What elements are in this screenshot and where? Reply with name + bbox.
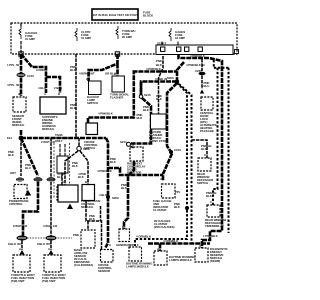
- svg-text:B: B: [85, 180, 87, 184]
- svg-text:GRY: GRY: [10, 171, 16, 175]
- svg-text:10 AMP: 10 AMP: [25, 37, 35, 41]
- terminal at fuse box corner: [235, 50, 239, 54]
- svg-text:BLU: BLU: [204, 84, 210, 88]
- PCM text: [81, 199, 100, 209]
- svg-text:2 WHT 140: 2 WHT 140: [41, 140, 56, 144]
- svg-text:PACKAGE: PACKAGE: [200, 129, 214, 133]
- cruise control switch box: [84, 123, 98, 150]
- svg-text:8 BLK 450: 8 BLK 450: [8, 242, 22, 246]
- svg-text:F: F: [137, 243, 139, 247]
- svg-text:8 BLK 450: 8 BLK 450: [37, 242, 51, 246]
- svg-text:CLUSTER: CLUSTER: [153, 208, 167, 212]
- svg-text:3 ORN: 3 ORN: [36, 68, 45, 72]
- connector C oval small: [16, 178, 24, 182]
- svg-text:S216: S216: [144, 93, 151, 97]
- terminal arrow left: [19, 250, 24, 255]
- rear defogger switch feed: [192, 140, 208, 158]
- svg-text:HOT IN RUN, BULB TEST OR START: HOT IN RUN, BULB TEST OR START: [92, 13, 139, 17]
- node left arm to S216: [141, 82, 177, 95]
- svg-text:MODULE: MODULE: [81, 205, 93, 209]
- svg-text:4 BRN/WHT: 4 BRN/WHT: [79, 72, 95, 76]
- wire pink feed left: [20, 54, 23, 96]
- svg-text:4 ORN/BLK: 4 ORN/BLK: [163, 239, 179, 243]
- svg-text:BLK: BLK: [206, 194, 213, 198]
- wire ACR down to generator: [124, 161, 134, 229]
- svg-text:S206: S206: [167, 76, 174, 80]
- terminal arrow right: [48, 250, 53, 255]
- strip feed jogs right: [179, 54, 223, 248]
- fan wires to PCM: [65, 151, 88, 185]
- connector C210 right: [46, 236, 57, 241]
- svg-text:BLK: BLK: [72, 164, 79, 168]
- svg-text:BLK: BLK: [201, 147, 208, 151]
- svg-text:50: 50: [16, 83, 20, 87]
- svg-text:LAMPS MODULE: LAMPS MODULE: [126, 265, 149, 269]
- svg-text:BLK: BLK: [57, 175, 64, 179]
- svg-text:20 AMP: 20 AMP: [122, 35, 132, 39]
- central door lock box: [200, 97, 217, 133]
- svg-text:S209: S209: [112, 196, 119, 200]
- long vertical wire x108: [106, 138, 109, 248]
- svg-text:S214: S214: [120, 140, 127, 144]
- pin at fuse box exit left: [19, 52, 23, 56]
- svg-text:E14: E14: [7, 136, 12, 140]
- svg-text:BLK: BLK: [143, 108, 150, 112]
- svg-text:4 BLK: 4 BLK: [99, 193, 108, 197]
- svg-text:SWITCH: SWITCH: [87, 101, 98, 105]
- svg-text:(TBI) UNIT: (TBI) UNIT: [11, 279, 25, 283]
- fuse GAUGES left: [19, 26, 37, 41]
- inter-connector dashed link: [27, 237, 72, 239]
- svg-text:ONLY: ONLY: [55, 139, 63, 143]
- svg-text:BLK: BLK: [156, 97, 163, 101]
- svg-text:BLK: BLK: [174, 205, 181, 209]
- svg-text:(DERM): (DERM): [210, 259, 220, 263]
- svg-text:BLK: BLK: [70, 68, 77, 72]
- svg-text:(CONV CTR): (CONV CTR): [149, 139, 166, 143]
- svg-text:LAMPS MODULE: LAMPS MODULE: [169, 258, 192, 262]
- svg-text:4 BLK: 4 BLK: [38, 86, 47, 90]
- svg-text:50: 50: [16, 63, 20, 67]
- sensor module box: [12, 92, 26, 127]
- svg-text:1 PPL: 1 PPL: [7, 63, 15, 67]
- rear window defogger timer box: [205, 205, 226, 228]
- fuse block name label: [143, 11, 154, 18]
- svg-text:MODULE: MODULE: [42, 127, 54, 131]
- turn signal flasher box: [110, 76, 129, 100]
- svg-text:BLK: BLK: [121, 186, 128, 190]
- TBI unit box right: [42, 255, 66, 283]
- node E14 splice: [7, 130, 23, 140]
- central door lock feed: [201, 59, 203, 71]
- wire pnk vertical from fuse: [75, 54, 77, 137]
- svg-text:4 PPL: 4 PPL: [7, 83, 15, 87]
- svg-text:BLOCK: BLOCK: [143, 14, 154, 18]
- splice S211: [169, 148, 181, 154]
- generator box: [116, 225, 135, 247]
- svg-text:B: B: [58, 92, 60, 96]
- svg-text:SWITCH: SWITCH: [84, 146, 95, 150]
- DRL module box left: [154, 251, 196, 265]
- svg-text:2 BLK: 2 BLK: [54, 86, 63, 90]
- svg-text:4 PNK/BLK: 4 PNK/BLK: [190, 54, 206, 58]
- svg-text:10 AMP: 10 AMP: [175, 36, 185, 40]
- svg-text:BLK: BLK: [70, 106, 77, 110]
- fuse block dashed box: [11, 23, 237, 54]
- splice S208: [77, 138, 90, 151]
- PCM box 1: [58, 185, 78, 202]
- wire triple right: [213, 60, 229, 233]
- long vertical wire pair: [135, 83, 187, 246]
- svg-text:SENSOR: SENSOR: [98, 269, 111, 273]
- splice S214: [120, 140, 131, 146]
- tank cluster only dashed region: [54, 133, 70, 200]
- DERM box: [195, 244, 229, 263]
- backup lamp switch box: [87, 81, 101, 105]
- svg-text:8 WHT 140: 8 WHT 140: [13, 224, 28, 228]
- svg-text:F: F: [122, 225, 124, 229]
- wire turn fuse drop: [89, 54, 118, 81]
- svg-text:4 ORN/BLK: 4 ORN/BLK: [136, 235, 152, 239]
- wire thick diagonal to C100 mid: [21, 138, 38, 176]
- PCM box 2: [82, 185, 95, 201]
- svg-text:PNK: PNK: [73, 233, 80, 237]
- fuse block connector strip: [156, 42, 233, 55]
- ground triangle G2: [67, 204, 73, 210]
- svg-text:GENERATOR: GENERATOR: [116, 243, 135, 247]
- wire branch to cluster: [21, 54, 60, 93]
- connector C100 left: [17, 73, 35, 78]
- svg-text:C210: C210: [174, 148, 181, 152]
- splice S216: [139, 93, 151, 98]
- svg-text:C100: C100: [27, 74, 34, 78]
- svg-text:C205: C205: [195, 69, 202, 73]
- pnk blk branch wire y118: [88, 72, 177, 124]
- svg-text:4 PNK/BLK: 4 PNK/BLK: [98, 112, 114, 116]
- svg-text:CONTROL: CONTROL: [9, 202, 23, 206]
- svg-text:BLK: BLK: [110, 160, 117, 164]
- wire thick down-left L: [23, 182, 38, 236]
- main bus wire horizontal: [21, 137, 106, 140]
- wire S211 up: [167, 83, 177, 151]
- svg-text:10 AMP: 10 AMP: [81, 36, 91, 40]
- bottom bus y243: [148, 244, 210, 252]
- svg-text:1 PNK/BLK: 1 PNK/BLK: [203, 234, 219, 238]
- svg-text:4 WHT 140: 4 WHT 140: [43, 224, 58, 228]
- header label HOT IN RUN: [92, 9, 139, 20]
- connector C210 left: [17, 236, 28, 241]
- AC compressor relay box: [127, 143, 146, 175]
- svg-text:TIMER/RELAY: TIMER/RELAY: [205, 224, 224, 228]
- H2 bus wire y168: [108, 168, 163, 175]
- rear wiper module box: [149, 114, 166, 143]
- svg-text:BLK: BLK: [156, 63, 163, 67]
- svg-text:BLK: BLK: [137, 116, 144, 120]
- cluster box: [40, 92, 66, 131]
- svg-text:(CALIFORNIA): (CALIFORNIA): [74, 263, 93, 267]
- splice S209 node: [99, 193, 119, 200]
- wire S211 down to cluster: [163, 154, 172, 182]
- svg-text:4 PNK/BLK: 4 PNK/BLK: [146, 67, 162, 71]
- svg-text:MODULE: MODULE: [12, 123, 24, 127]
- rear window defogger switch box: [197, 158, 214, 185]
- fuse GAGES right: [169, 28, 185, 41]
- tank cluster inner box: [60, 144, 65, 156]
- svg-text:(TBI) UNIT: (TBI) UNIT: [42, 279, 56, 283]
- wire below C210 left: [21, 241, 23, 251]
- node feed diagonal: [177, 62, 184, 80]
- svg-text:PPL: PPL: [175, 190, 181, 194]
- tank cluster lower box: [57, 185, 66, 200]
- pin at fuse box exit turn: [115, 52, 119, 56]
- TBI unit box left: [11, 255, 35, 283]
- svg-text:BLK: BLK: [8, 153, 15, 157]
- svg-text:BLU: BLU: [25, 166, 31, 170]
- wire into AC relay: [131, 146, 135, 148]
- wire S216 to S214: [131, 82, 151, 144]
- connector C100 mid: [34, 177, 43, 181]
- DRL module box mid: [126, 243, 153, 269]
- svg-text:SWITCH: SWITCH: [197, 181, 208, 185]
- wire second column x51: [50, 138, 52, 236]
- splice S206: [155, 76, 179, 84]
- connector C100 third: [47, 177, 56, 181]
- wire bus y221: [86, 200, 102, 250]
- svg-text:BLK: BLK: [89, 217, 96, 221]
- svg-text:BLK: BLK: [78, 175, 85, 179]
- splice S210: [174, 190, 189, 210]
- wire below C210 right: [50, 241, 52, 251]
- fuse TURN B/U: [116, 26, 135, 39]
- MAF sensor box: [74, 230, 95, 267]
- powertrain box: [9, 185, 28, 207]
- cruise sensor box: [98, 250, 113, 274]
- fuel gauge cluster small box: [153, 184, 175, 229]
- wire to powertrain oval: [20, 138, 22, 176]
- ground triangle G1: [25, 190, 31, 196]
- fuse CLSTR: [75, 28, 91, 41]
- svg-text:4 PNK/BLK: 4 PNK/BLK: [97, 169, 113, 173]
- svg-text:(W/O GAUGES): (W/O GAUGES): [154, 225, 175, 229]
- rear wiper wire: [159, 56, 164, 114]
- svg-text:FLASHER: FLASHER: [110, 96, 124, 100]
